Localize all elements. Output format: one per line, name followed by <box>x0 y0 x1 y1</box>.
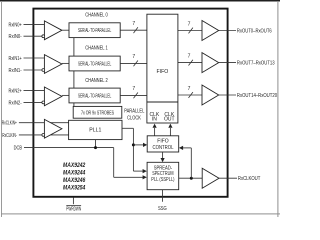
junction dot DCB-PLL1 <box>94 146 97 149</box>
page frame top edge <box>0 0 280 2</box>
svg-text:FIFO: FIFO <box>156 69 168 75</box>
svg-text:RxOUT0–RxOUT6: RxOUT0–RxOUT6 <box>237 29 272 35</box>
bus width slash left 1 <box>134 61 138 67</box>
svg-text:MAX9246: MAX9246 <box>63 178 86 184</box>
svg-text:7: 7 <box>188 53 191 59</box>
wire RxIN1+ input <box>24 57 45 59</box>
inverting bubble A0 <box>42 35 45 38</box>
bus width slash right 2 <box>189 92 193 98</box>
svg-text:MAX9242: MAX9242 <box>63 163 86 169</box>
serial-to-parallel block U2 <box>69 56 120 71</box>
wire strobe line ch2-strobes box <box>73 103 75 107</box>
arrow DCB into SSPLL <box>143 175 147 179</box>
svg-text:SERIAL-TO-PARALLEL: SERIAL-TO-PARALLEL <box>78 28 111 34</box>
svg-text:CHANNEL 1: CHANNEL 1 <box>85 46 108 52</box>
svg-text:MAX9254: MAX9254 <box>63 185 86 191</box>
input buffer A3 clock <box>44 119 62 138</box>
svg-text:7: 7 <box>132 21 135 27</box>
svg-text:PWRDWN: PWRDWN <box>66 207 81 213</box>
svg-text:RxCLKIN-: RxCLKIN- <box>2 133 17 139</box>
bus serial-to-parallel 0 to FIFO <box>120 29 147 31</box>
svg-text:7: 7 <box>132 54 135 60</box>
wire strobe line ch1-ch2 <box>73 71 75 88</box>
svg-text:RxIN2-: RxIN2- <box>9 100 22 106</box>
wire RxIN0+ input <box>24 23 45 25</box>
svg-text:IN: IN <box>152 117 157 123</box>
wire feedback to FIFO control <box>182 147 191 149</box>
svg-text:RxIN1-: RxIN1- <box>9 68 22 74</box>
svg-text:7: 7 <box>188 21 191 27</box>
serial-to-parallel block U1 <box>69 23 120 38</box>
wire output buffer 1 to pin <box>219 62 236 64</box>
page frame left edge <box>0 1 3 217</box>
wire RxIN0- input <box>24 35 45 37</box>
svg-text:MAX9244: MAX9244 <box>63 171 86 177</box>
block 7x/9x strobes <box>73 106 122 118</box>
wire buffer A0 to serial-to-parallel <box>62 29 69 31</box>
wire output buffer 0 to pin <box>219 30 236 32</box>
wire DCB junction to PLL1 <box>95 140 97 148</box>
input buffer A1 channel 1 <box>44 55 62 74</box>
output buffer B1 channel 1 <box>202 53 219 73</box>
serial-to-parallel block U3 <box>69 88 120 103</box>
wire FIFO control to SSPLL <box>162 152 164 159</box>
bus serial-to-parallel 2 to FIFO <box>120 94 147 96</box>
inverting bubble A2 <box>42 101 45 104</box>
svg-text:FIFO: FIFO <box>157 139 168 145</box>
arrow into FIFO control left <box>143 143 147 147</box>
input buffer A2 channel 2 <box>44 87 62 106</box>
bus serial-to-parallel 1 to FIFO <box>120 62 147 64</box>
wire PLL1 to junction <box>122 127 133 129</box>
wire buffer A2 to serial-to-parallel <box>62 94 69 96</box>
arrow into FIFO control right <box>179 146 183 150</box>
svg-text:PLL (SSPLL): PLL (SSPLL) <box>151 177 174 183</box>
wire SSG <box>162 190 164 202</box>
wire feedback vertical <box>190 148 192 178</box>
wire RxCLKIN+ to PLL1 <box>19 122 69 124</box>
wire junction to SSPLL upper <box>133 170 143 172</box>
bus width slash right 1 <box>189 60 193 66</box>
svg-text:PLL1: PLL1 <box>89 128 101 134</box>
svg-text:RxCLKOUT: RxCLKOUT <box>238 176 261 182</box>
wire buffer A1 to serial-to-parallel <box>62 62 69 64</box>
wire PWRDWN tick <box>72 198 74 205</box>
input buffer A0 channel 0 <box>44 21 62 40</box>
svg-text:CHANNEL 2: CHANNEL 2 <box>85 78 108 84</box>
wire strobe line ch0-ch1 <box>73 38 75 57</box>
bus FIFO to output buffer 1 <box>178 62 202 64</box>
wire parallel clock vertical <box>132 128 134 171</box>
block PLL1 <box>69 120 122 139</box>
FIFO clk section divider <box>147 101 178 103</box>
wire DCB down segment <box>113 148 115 178</box>
wire DCB to SSPLL <box>114 176 144 178</box>
svg-text:SERIAL-TO-PARALLEL: SERIAL-TO-PARALLEL <box>78 61 111 67</box>
output buffer B2 channel 2 <box>202 85 219 105</box>
output buffer B0 channel 0 <box>202 21 219 41</box>
svg-text:7: 7 <box>132 86 135 92</box>
junction dot parallel clock <box>132 143 135 146</box>
svg-text:CLOCK: CLOCK <box>127 116 141 122</box>
svg-text:RxIN2+: RxIN2+ <box>9 88 22 94</box>
bus width slash right 0 <box>189 28 193 34</box>
page frame bottom edge <box>1 213 280 214</box>
svg-text:RxIN0-: RxIN0- <box>9 34 22 40</box>
wire clock buffer to pin <box>219 177 237 179</box>
svg-text:7: 7 <box>188 86 191 92</box>
svg-text:RxIN0+: RxIN0+ <box>9 22 22 28</box>
page frame right edge <box>277 1 278 217</box>
svg-text:CHANNEL 0: CHANNEL 0 <box>85 13 108 19</box>
wire junction to FIFO control <box>133 144 144 146</box>
wire RxIN2- input <box>24 101 45 103</box>
wire clk out arrow <box>169 128 171 136</box>
bus width slash left 2 <box>134 93 138 99</box>
svg-text:RxOUT14–RxOUT20: RxOUT14–RxOUT20 <box>237 93 277 99</box>
svg-text:RxCLKIN+: RxCLKIN+ <box>2 121 17 127</box>
inverting bubble A1 <box>42 69 45 72</box>
svg-text:OUT: OUT <box>164 117 175 123</box>
wire RxIN1- input <box>24 69 45 71</box>
wire RxCLKIN- to PLL1 <box>19 134 69 136</box>
inverting bubble A3 <box>42 134 45 137</box>
bus FIFO to output buffer 0 <box>178 30 202 32</box>
wire RxIN2+ input <box>24 89 45 91</box>
svg-text:SSG: SSG <box>158 206 167 212</box>
junction dot clock out <box>190 177 193 180</box>
block FIFO CONTROL <box>147 136 179 152</box>
bus width slash left 0 <box>134 27 138 33</box>
svg-text:RxIN1+: RxIN1+ <box>9 56 22 62</box>
bus FIFO to output buffer 2 <box>178 94 202 96</box>
block spread-spectrum PLL <box>147 162 179 189</box>
node PWRDWN overline <box>66 204 81 206</box>
wire SSPLL to clock buffer <box>179 177 203 179</box>
svg-text:CONTROL: CONTROL <box>153 145 174 151</box>
wire clk in arrow <box>154 128 156 136</box>
svg-text:7x OR 9x STROBES: 7x OR 9x STROBES <box>81 110 114 116</box>
output buffer B3 clock <box>202 168 219 188</box>
svg-text:DCB: DCB <box>14 146 23 152</box>
block FIFO <box>147 14 178 123</box>
wire DCB horizontal <box>24 147 114 149</box>
device outline MAX9242 deserializer <box>33 9 227 197</box>
wire output buffer 2 to pin <box>219 94 236 96</box>
svg-text:PARALLEL: PARALLEL <box>124 109 144 115</box>
svg-text:SERIAL-TO-PARALLEL: SERIAL-TO-PARALLEL <box>78 93 111 99</box>
svg-text:RxOUT7–RxOUT13: RxOUT7–RxOUT13 <box>237 61 275 67</box>
arrow into SSPLL upper <box>143 169 147 173</box>
